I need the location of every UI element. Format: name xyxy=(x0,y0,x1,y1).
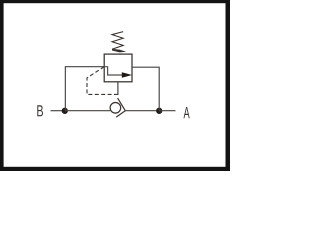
wire check valve to right junction xyxy=(125,110,159,112)
relief valve U1 internal arrowhead xyxy=(122,72,132,78)
relief valve U1 internal flow path xyxy=(104,67,123,75)
wire left junction to check valve xyxy=(65,110,110,112)
node B (port label) xyxy=(37,105,43,116)
check valve V1 ball xyxy=(110,103,121,114)
wire right junction to A xyxy=(159,110,175,112)
drain stub from valve bottom to pilot line xyxy=(117,82,119,95)
spring bottom wedge stroke xyxy=(112,49,126,53)
relief valve U1 body xyxy=(104,54,132,82)
junction dot left xyxy=(62,108,68,114)
pilot line dashed from valve inlet xyxy=(87,67,118,95)
node A (port label) xyxy=(183,107,189,118)
spring on relief valve xyxy=(112,32,123,50)
junction dot right xyxy=(156,108,162,114)
wire valve outlet right and down to right junction xyxy=(132,67,159,111)
wire left junction up and over to valve inlet xyxy=(65,67,104,111)
check valve V1 seat xyxy=(116,98,125,117)
wire B to left junction xyxy=(51,110,65,112)
